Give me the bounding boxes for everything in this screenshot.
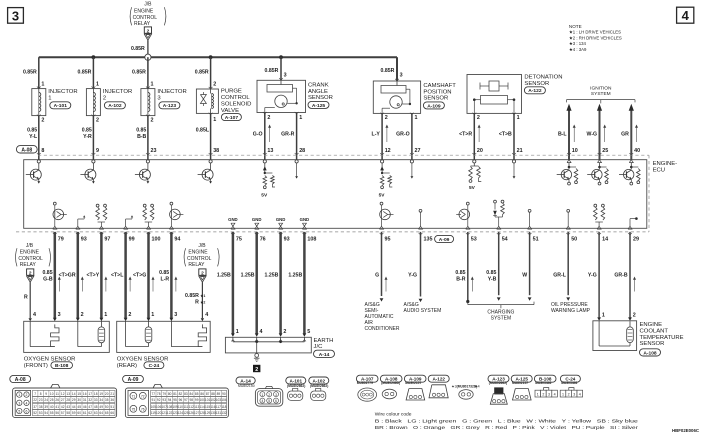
label W <box>522 273 527 279</box>
svg-text:42: 42 <box>61 405 65 409</box>
label wire size/colour 0.85 Y-R <box>82 127 92 140</box>
svg-text:A-14: A-14 <box>319 352 330 358</box>
svg-text:1: 1 <box>537 393 539 397</box>
page marker 3 <box>8 8 24 24</box>
junction dot (purge valve tap) <box>209 55 213 59</box>
ECU pin 12 label <box>385 148 391 154</box>
junction dot (injector 2 tap) <box>92 55 96 59</box>
svg-text:28: 28 <box>66 398 70 402</box>
svg-text:0.85R: 0.85R <box>185 293 199 299</box>
ECU internal 5V pull-up (pin 13) <box>261 160 275 199</box>
svg-text:EARTH: EARTH <box>314 338 334 344</box>
svg-text:87: 87 <box>206 392 210 396</box>
svg-text:1: 1 <box>262 393 264 397</box>
svg-text:A-123: A-123 <box>163 103 177 109</box>
svg-text:51: 51 <box>110 405 114 409</box>
svg-text:(REAR): (REAR) <box>117 363 137 369</box>
svg-text:★2 : RH DRIVE VEHICLES: ★2 : RH DRIVE VEHICLES <box>569 35 622 40</box>
svg-text:0.85: 0.85 <box>486 270 496 276</box>
svg-text:93: 93 <box>162 398 166 402</box>
component label injector 1 <box>48 89 77 109</box>
svg-text:1: 1 <box>48 96 51 102</box>
svg-text:ENGINE: ENGINE <box>134 8 154 14</box>
svg-text:4: 4 <box>579 393 581 397</box>
junction dot (crank sensor tap) <box>279 55 283 59</box>
svg-text:Y-R: Y-R <box>83 134 92 140</box>
svg-text:R: R <box>24 295 28 301</box>
component label detonation sensor <box>524 74 562 94</box>
svg-text:34: 34 <box>99 398 103 402</box>
ECU internal transistor (pin 95) <box>380 202 394 226</box>
svg-text:MU802157: MU802157 <box>512 381 528 385</box>
svg-text:SENSOR: SENSOR <box>423 96 448 102</box>
ECU internal stub (pin 135) <box>419 209 422 226</box>
svg-text:★1 : LH DRIVE VEHICLES: ★1 : LH DRIVE VEHICLES <box>569 30 621 35</box>
wire: bus to injector 1 <box>37 57 41 88</box>
connector A-122 label <box>428 375 449 382</box>
svg-text:83: 83 <box>184 392 188 396</box>
svg-text:Y-G: Y-G <box>408 273 417 279</box>
svg-text:26: 26 <box>55 398 59 402</box>
svg-text:AUDIO SYSTEM: AUDIO SYSTEM <box>404 308 442 314</box>
ECU pin 9 label <box>96 148 99 154</box>
pin 3 label (cam sensor) <box>400 73 403 79</box>
svg-text:1: 1 <box>151 82 154 88</box>
svg-text:86: 86 <box>200 392 204 396</box>
svg-text:1: 1 <box>415 115 418 121</box>
pin 2 label (purge valve) <box>213 82 216 88</box>
svg-text:CONTROL: CONTROL <box>18 256 43 262</box>
ECU internal link (pin 99) <box>126 215 134 226</box>
svg-text:SENSOR: SENSOR <box>524 81 549 87</box>
svg-text:A-101: A-101 <box>54 103 68 109</box>
ECU internal 5V network (pin 20) <box>469 160 482 191</box>
svg-text:61: 61 <box>83 411 87 415</box>
label R <box>24 295 28 301</box>
svg-text:6: 6 <box>26 410 28 414</box>
svg-text:J/B: J/B <box>198 243 206 249</box>
svg-text:66: 66 <box>110 411 114 415</box>
label <T>Y <box>86 273 99 279</box>
svg-text:108: 108 <box>307 237 316 243</box>
svg-text:23: 23 <box>39 398 43 402</box>
svg-text:100: 100 <box>152 237 161 243</box>
ECU internal stub (pin 50) <box>567 209 570 226</box>
pin 2 label (cam sensor) <box>385 115 388 121</box>
svg-text:GND: GND <box>228 217 238 222</box>
signal arrow (cam pin 2) <box>385 125 388 143</box>
label Y-G (14) <box>588 273 597 279</box>
svg-text:ENGINE: ENGINE <box>640 322 663 328</box>
svg-text:SOLENOID: SOLENOID <box>221 101 251 107</box>
svg-text:<T>G: <T>G <box>133 273 146 279</box>
svg-text:28: 28 <box>299 148 305 154</box>
svg-text:★2: ★2 <box>200 299 205 304</box>
svg-text:GND: GND <box>300 217 310 222</box>
pin 2 label (crank sensor) <box>267 115 270 121</box>
svg-text:WARNING LAMP: WARNING LAMP <box>551 308 591 314</box>
label W-G <box>587 131 598 137</box>
signal arrow (detonation pin 2) <box>478 125 481 143</box>
relay J/B engine control relay (rear O2 heater feed) <box>184 243 219 268</box>
label 0.85R (purge valve feed) <box>195 69 209 75</box>
svg-text:58: 58 <box>66 411 70 415</box>
wire: ECU 100 to rear O2 sensor pin 1 (<T>G) <box>147 232 151 321</box>
svg-text:0.85R: 0.85R <box>381 68 395 74</box>
svg-text:39: 39 <box>44 405 48 409</box>
camshaft position sensor (A-109) <box>373 81 420 113</box>
svg-text:MU803446: MU803446 <box>561 381 577 385</box>
svg-text:118: 118 <box>221 405 226 409</box>
svg-text:0.85R: 0.85R <box>78 69 92 75</box>
svg-text:G-B: G-B <box>43 277 53 283</box>
label G-O <box>253 131 263 137</box>
wire: ECU 94 to rear O2 sensor pin 3 (0.85 L-R) <box>170 232 174 321</box>
signal direction arrow <box>58 277 61 292</box>
svg-text:2: 2 <box>151 118 154 124</box>
svg-text:24: 24 <box>44 398 48 402</box>
svg-text:5: 5 <box>18 410 20 414</box>
svg-text:43: 43 <box>66 405 70 409</box>
svg-text:97: 97 <box>104 237 110 243</box>
svg-text:53: 53 <box>471 237 477 243</box>
svg-text:3: 3 <box>12 8 19 23</box>
connector A-107 drawing <box>358 388 377 401</box>
svg-text:B-R: B-R <box>456 277 465 283</box>
label Y-G (135) <box>408 273 417 279</box>
svg-text:<T>Y: <T>Y <box>86 273 99 279</box>
svg-text:88: 88 <box>211 392 215 396</box>
connector A-123 drawing <box>490 388 507 404</box>
pin 1 label (injector 1) <box>41 82 44 88</box>
svg-text:96: 96 <box>179 398 183 402</box>
svg-text:47: 47 <box>88 405 92 409</box>
svg-text:104: 104 <box>221 398 227 402</box>
component label injector 2 <box>103 89 132 109</box>
svg-text:13: 13 <box>66 392 70 396</box>
label GR <box>621 131 629 137</box>
svg-text:(MU802662): (MU802662) <box>489 381 507 385</box>
svg-text:20: 20 <box>477 148 483 154</box>
svg-text:PURGE: PURGE <box>221 89 242 95</box>
charging system bracket <box>468 302 534 309</box>
svg-text:ECU: ECU <box>653 167 665 173</box>
label 0.85L <box>196 127 210 133</box>
svg-text:0.85R: 0.85R <box>132 69 146 75</box>
signal arrow (GR) <box>635 125 638 143</box>
svg-text:A-09: A-09 <box>439 237 450 243</box>
svg-text:21: 21 <box>110 392 114 396</box>
relay J/B engine control relay (top) <box>130 2 166 28</box>
svg-text:51: 51 <box>533 237 539 243</box>
component label earth J/C <box>314 338 335 358</box>
svg-text:3: 3 <box>573 393 575 397</box>
svg-text:0.85: 0.85 <box>455 270 465 276</box>
connector A-125 label <box>511 375 532 385</box>
svg-text:93: 93 <box>81 237 87 243</box>
svg-text:3: 3 <box>548 393 550 397</box>
svg-text:(MU802662): (MU802662) <box>310 384 328 388</box>
pin 2 label (injector 1) <box>41 118 44 124</box>
svg-text:93: 93 <box>284 237 290 243</box>
ECU bottom pin number labels <box>58 237 639 243</box>
svg-text:63: 63 <box>94 411 98 415</box>
signal arrow (B-L) <box>573 125 576 143</box>
label 0.85R (injector 2 feed) <box>78 69 92 75</box>
wire: ECU 93 to front O2 sensor pin 2 (<T>GR) <box>76 232 80 321</box>
svg-text:B-B: B-B <box>137 134 146 140</box>
svg-text:1.25B: 1.25B <box>288 273 302 279</box>
svg-text:W: W <box>522 273 527 279</box>
pin 1 label (crank sensor) <box>299 115 302 121</box>
svg-text:SENSOR: SENSOR <box>308 95 333 101</box>
svg-text:2: 2 <box>103 96 106 102</box>
svg-text:GR-B: GR-B <box>614 273 628 279</box>
connector A-08 label <box>10 375 31 383</box>
label <T>B <box>499 131 512 137</box>
svg-text:84: 84 <box>190 392 194 396</box>
svg-text:82: 82 <box>179 392 183 396</box>
wire: purge valve to ECU pin 38 (0.85L) <box>209 113 213 160</box>
ECU internal resistor pair (pin 97) <box>96 204 107 226</box>
destination A/S&G semi automatic air conditioner <box>365 302 400 332</box>
svg-text:11: 11 <box>56 392 60 396</box>
svg-text:CONTROL: CONTROL <box>133 15 158 21</box>
ECU internal transistor (pin 94) <box>170 202 184 226</box>
svg-text:NOTE: NOTE <box>569 24 582 29</box>
label 0.85 L-R <box>159 270 169 283</box>
wire: injector 3 to ECU pin 23 <box>146 115 150 160</box>
svg-text:77: 77 <box>152 392 156 396</box>
svg-text:4: 4 <box>262 399 264 403</box>
wire: bus to injector 2 <box>92 57 96 88</box>
svg-text:CONTROL: CONTROL <box>187 256 212 262</box>
svg-text:MU802157: MU802157 <box>405 381 421 385</box>
svg-text:12: 12 <box>385 148 391 154</box>
pin 1 label (detonation sensor) <box>517 115 520 121</box>
svg-text:GND: GND <box>252 217 262 222</box>
svg-text:54: 54 <box>44 411 48 415</box>
label ENGINE-ECU <box>653 161 678 174</box>
label 0.85R (injector 3 feed) <box>132 69 146 75</box>
wire: ECU 51 to charging system (W) <box>528 232 532 301</box>
injector 1 (A-101) <box>32 89 46 116</box>
svg-text:99: 99 <box>195 398 199 402</box>
svg-text:4: 4 <box>205 312 208 318</box>
svg-text:A-122: A-122 <box>528 88 542 94</box>
svg-text:2: 2 <box>477 115 480 121</box>
ECU internal transistor (pin 38 driver) <box>198 160 214 184</box>
wire: relay to front O2 sensor pin 4 (R) <box>29 282 32 321</box>
connector A-125 drawing <box>513 389 532 400</box>
svg-text:MU802150: MU802150 <box>238 384 255 388</box>
svg-text:5V: 5V <box>469 185 476 191</box>
connector A-09 drawing <box>125 384 228 417</box>
component label engine coolant temperature sensor <box>640 322 684 356</box>
svg-text:1: 1 <box>18 393 20 397</box>
label 0.85R star1 / R star2 <box>185 293 205 306</box>
svg-text:36: 36 <box>110 398 114 402</box>
svg-text:<T>R: <T>R <box>459 131 472 137</box>
bus tap circle (relay junction) <box>145 54 151 60</box>
wire: ECU earth to earth J/C (1.25B) <box>255 232 259 337</box>
ECU pin 25 label <box>602 148 608 154</box>
wire: crank sensor pin 1 to ECU pin 28 (GR-R) <box>295 112 299 160</box>
wire: cam sensor pin 1 to ECU pin 27 (GR-O) <box>410 113 414 160</box>
svg-text:J/B: J/B <box>144 2 152 8</box>
svg-text:45: 45 <box>77 405 81 409</box>
earth point number 2 <box>253 365 260 373</box>
wire: crank sensor pin 2 to ECU pin 13 (G-O) <box>263 112 267 160</box>
svg-text:G-O: G-O <box>253 131 263 137</box>
svg-text:7: 7 <box>34 392 36 396</box>
svg-text:21: 21 <box>517 148 523 154</box>
svg-text:1: 1 <box>517 115 520 121</box>
svg-text:2: 2 <box>213 82 216 88</box>
svg-text:1: 1 <box>213 117 216 123</box>
crank angle sensor (A-125) <box>257 80 306 112</box>
svg-text:HBF02E006C: HBF02E006C <box>672 428 699 433</box>
svg-text:75: 75 <box>236 237 242 243</box>
svg-text:A-109: A-109 <box>427 103 441 109</box>
svg-text:A-108: A-108 <box>643 350 657 356</box>
svg-text:POSITION: POSITION <box>423 89 451 95</box>
svg-text:33: 33 <box>94 398 98 402</box>
svg-text:0.85R: 0.85R <box>195 69 209 75</box>
ECU internal transistor (pin 8 driver) <box>26 160 42 184</box>
svg-text:14: 14 <box>602 237 608 243</box>
pin 1 label (injector 3) <box>151 82 154 88</box>
svg-text:90: 90 <box>222 392 226 396</box>
svg-text:37: 37 <box>33 405 37 409</box>
earth joint connector (A-14) <box>225 337 311 353</box>
label wire size/colour 0.85 Y-L <box>27 127 38 140</box>
label GR-L <box>553 273 567 279</box>
svg-text:110: 110 <box>178 405 183 409</box>
connector label A-09 (ECU bottom row) <box>435 235 454 243</box>
connector A-101 label <box>286 377 306 388</box>
label wire size/colour 0.85 B-B <box>136 127 146 140</box>
svg-text:4: 4 <box>26 401 28 405</box>
svg-text:79: 79 <box>58 237 64 243</box>
svg-text:2: 2 <box>268 393 270 397</box>
svg-text:(MU80246D): (MU80246D) <box>381 381 400 385</box>
svg-text:30: 30 <box>77 398 81 402</box>
svg-text:R: R <box>195 300 199 306</box>
svg-text:IGNITION: IGNITION <box>590 85 612 91</box>
svg-text:72: 72 <box>141 395 145 399</box>
ECU internal stub (pin 27) <box>410 160 413 179</box>
connector B-108 drawing <box>535 388 557 397</box>
svg-text:32: 32 <box>88 398 92 402</box>
svg-text:76: 76 <box>141 408 145 412</box>
svg-text:2: 2 <box>633 312 636 318</box>
ECU pin 20 label <box>477 148 483 154</box>
svg-text:54: 54 <box>502 237 508 243</box>
coolant sensor pin labels (1,2) <box>602 312 636 318</box>
svg-text:98: 98 <box>190 398 194 402</box>
connector A-08 drawing <box>13 384 117 417</box>
svg-text:GR: GR <box>621 131 629 137</box>
svg-text:14: 14 <box>72 392 76 396</box>
svg-text:10: 10 <box>572 148 578 154</box>
page marker 4 <box>677 7 694 23</box>
svg-text:ENGINE: ENGINE <box>20 249 40 255</box>
svg-text:1.25B: 1.25B <box>241 273 255 279</box>
connector C-24 label <box>560 375 580 385</box>
svg-text:78: 78 <box>157 392 161 396</box>
pin labels rear O2 sensor (2,1,3,4) <box>128 312 208 318</box>
relay terminal 2 (top) <box>144 27 151 40</box>
svg-text:2: 2 <box>255 367 258 373</box>
label 1.25B <box>217 273 231 279</box>
svg-text:A-101: A-101 <box>290 378 303 383</box>
wire: ECU 97 to front O2 sensor pin 1 (<T>Y) <box>100 232 104 321</box>
svg-text:1: 1 <box>602 312 605 318</box>
svg-text:J/C: J/C <box>314 344 324 350</box>
svg-text:65: 65 <box>105 411 109 415</box>
ECU pin 21 label <box>517 148 523 154</box>
svg-text:1.25B: 1.25B <box>265 273 279 279</box>
svg-text:13: 13 <box>267 148 273 154</box>
svg-text:57: 57 <box>61 411 65 415</box>
svg-text:5: 5 <box>307 329 310 335</box>
svg-text:L-R: L-R <box>161 277 170 283</box>
svg-text:2: 2 <box>147 28 150 34</box>
label GR-B <box>614 273 628 279</box>
ECU internal transistor (pin 53) <box>456 202 469 226</box>
svg-text:G: G <box>375 273 379 279</box>
oxygen sensor rear (C-24) <box>117 321 211 352</box>
svg-text:3: 3 <box>18 401 20 405</box>
svg-text:5: 5 <box>268 399 270 403</box>
label GR-O <box>396 131 410 137</box>
svg-text:12: 12 <box>61 392 65 396</box>
svg-text:29: 29 <box>72 398 76 402</box>
wire: ECU 50 to oil pressure lamp (GR-L) <box>566 232 570 301</box>
pin 2 label (injector 2) <box>96 118 99 124</box>
ECU internal stub (pin 21) <box>512 160 515 179</box>
svg-text:4: 4 <box>33 312 36 318</box>
svg-text:9: 9 <box>96 148 99 154</box>
svg-text:75: 75 <box>132 408 136 412</box>
label 0.85R (crank sensor feed) <box>265 68 279 74</box>
ECU internal resistor pair (pin 100) <box>143 204 154 226</box>
svg-text:16: 16 <box>83 392 87 396</box>
svg-text:<T>GR: <T>GR <box>59 273 76 279</box>
svg-text:10: 10 <box>50 392 54 396</box>
wire: detonation sensor pin 1 to ECU pin 21 <box>512 113 516 160</box>
ECU pin 8 label <box>41 148 44 154</box>
svg-text:GND: GND <box>276 217 286 222</box>
svg-text:GR-L: GR-L <box>553 273 567 279</box>
svg-text:ANGLE: ANGLE <box>308 89 328 95</box>
note block <box>569 24 622 52</box>
wire: injector 2 to ECU pin 9 <box>92 115 96 160</box>
svg-text:97: 97 <box>184 398 188 402</box>
svg-text:RELAY: RELAY <box>188 262 205 268</box>
svg-text:40: 40 <box>50 405 54 409</box>
wire/arrow to ignition system (B-L) <box>566 104 571 160</box>
svg-text:INJECTOR: INJECTOR <box>48 89 77 95</box>
signal direction arrow <box>152 277 155 292</box>
connector A-09 label <box>123 375 144 383</box>
svg-text:48: 48 <box>94 405 98 409</box>
svg-text:Y-B: Y-B <box>488 277 497 283</box>
svg-text:CRANK: CRANK <box>308 82 329 88</box>
label B-L <box>558 131 567 137</box>
svg-text:41: 41 <box>55 405 59 409</box>
